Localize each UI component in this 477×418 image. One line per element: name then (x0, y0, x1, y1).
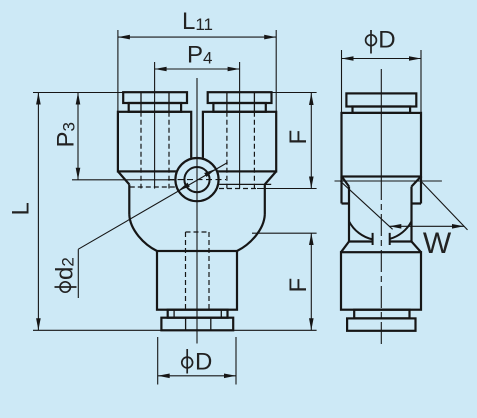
side hex flat right (410, 187, 412, 242)
arrowhead phi-d2 upper (204, 169, 216, 177)
label F2 (285, 278, 312, 293)
left chamfer hidden edge (130, 186, 178, 188)
side bottom collar (354, 310, 409, 319)
arrowhead phi-D front left (158, 374, 170, 379)
extension line L11 left (117, 30, 119, 112)
W oblique line left (341, 181, 393, 229)
ball horizontal centerline (168, 179, 226, 181)
socket arc right (390, 221, 412, 239)
extension line F1 top (272, 92, 317, 94)
left bore hidden lines (141, 112, 169, 189)
arrowhead F2 bottom (309, 318, 314, 330)
right cap slit lines (227, 92, 255, 112)
arrowhead L bottom (36, 318, 41, 330)
W reference line (335, 180, 442, 182)
arrowhead W left (389, 224, 401, 229)
arrowhead phi-D front right (224, 374, 236, 379)
side bottom cap (347, 318, 415, 330)
dimension line F1 (310, 93, 312, 189)
svg-text:L11: L11 (182, 8, 213, 35)
bottom cap slit lines (186, 318, 211, 331)
label P3 (53, 122, 80, 147)
W dimension line (389, 225, 464, 227)
dimension line L11 (118, 36, 276, 38)
left port cap (123, 92, 187, 103)
ball joint fill (174, 157, 219, 202)
W oblique line right (421, 181, 468, 230)
svg-text:D: D (195, 349, 212, 376)
bottom bore hidden lines (186, 232, 210, 310)
slot walls (373, 233, 390, 245)
arrowhead L top (36, 93, 41, 105)
left cap slit lines (141, 92, 169, 112)
dimension line phi-D side (342, 58, 422, 60)
svg-text:P4: P4 (187, 41, 212, 68)
right shoulder curve (237, 215, 265, 251)
front main centerline (196, 78, 198, 344)
ball joint outer circle (175, 158, 218, 201)
extension line F1 bottom (257, 188, 317, 190)
label F1 (285, 130, 312, 145)
side collar (353, 107, 411, 113)
dimension line L (37, 93, 39, 331)
extension line F2 top (252, 232, 317, 234)
left outer chamfer (118, 171, 129, 184)
svg-text:d2: d2 (52, 257, 79, 280)
arrowhead P3 bottom (76, 168, 81, 180)
side hex corner right (412, 177, 422, 204)
right outer chamfer (265, 171, 276, 184)
arrowhead F1 top (309, 93, 314, 105)
bottom-left extension line (33, 329, 161, 331)
top-left extension line (33, 92, 123, 94)
svg-text:D: D (378, 27, 395, 54)
arrowhead F2 top (309, 233, 314, 245)
right bore hidden lines (227, 112, 255, 189)
arrowhead phi-D side left (342, 56, 354, 61)
extension lines phi-D front (158, 337, 236, 385)
left shoulder curve (129, 215, 157, 251)
extension line P4 left / left port centerline (154, 62, 156, 189)
bottom bore hidden shoulder (186, 231, 210, 233)
arrowhead L11 right (264, 35, 276, 40)
extension line P3 bottom (72, 179, 177, 181)
svg-text:P3: P3 (53, 122, 80, 147)
side top body (342, 113, 422, 177)
dimension line P4 (155, 68, 240, 70)
side hex flat left (348, 187, 350, 242)
extension lines phi-D side (342, 50, 422, 112)
left lower side (128, 184, 130, 214)
socket arc left (349, 221, 373, 239)
dimension line F2 (310, 233, 312, 330)
svg-text:W: W (423, 227, 452, 260)
arrowhead phi-D side right (409, 56, 421, 61)
bottom collar slit lines (174, 310, 221, 318)
bottom port cap (161, 318, 233, 331)
extension line L11 right (275, 30, 277, 112)
side left chamfer (343, 178, 350, 187)
label phi-D front (182, 349, 213, 376)
dimension line P3 (77, 93, 79, 180)
taper top edges (349, 240, 412, 242)
side right chamfer (412, 178, 421, 187)
arrowhead W right (452, 224, 464, 229)
right hidden edge (219, 188, 257, 190)
right lower side (264, 184, 266, 214)
bottom port body (157, 251, 237, 310)
arrowhead L11 left (118, 35, 130, 40)
svg-text:L: L (8, 202, 35, 215)
arrowhead F1 bottom (309, 177, 314, 189)
label phi-D side (366, 27, 396, 54)
side hex corner left (342, 177, 350, 204)
right chamfer edge (216, 183, 271, 185)
side cap (346, 93, 416, 106)
arrowhead P3 top (76, 93, 81, 105)
right port collar (213, 103, 265, 112)
side bottom body (341, 252, 421, 310)
right port body (203, 112, 276, 172)
svg-text:F: F (285, 130, 312, 145)
ball joint inner circle (184, 167, 209, 192)
left port body (118, 112, 191, 172)
leader line phi-d2 (78, 163, 227, 299)
side centerline (380, 69, 382, 178)
label phi-d2 (52, 257, 79, 292)
label L (8, 202, 35, 215)
right port cap (208, 92, 272, 103)
arrowhead P4 left (155, 67, 167, 72)
arrowhead phi-d2 lower (178, 183, 190, 191)
extension line F2 bottom (233, 329, 316, 331)
taper sides (341, 242, 421, 253)
left port collar (129, 103, 181, 112)
dimension line phi-D front (158, 375, 236, 377)
arrowhead P4 right (228, 67, 240, 72)
bottom port collar (168, 310, 228, 318)
svg-text:F: F (285, 278, 312, 293)
extension line P4 right / right port centerline (239, 62, 241, 189)
